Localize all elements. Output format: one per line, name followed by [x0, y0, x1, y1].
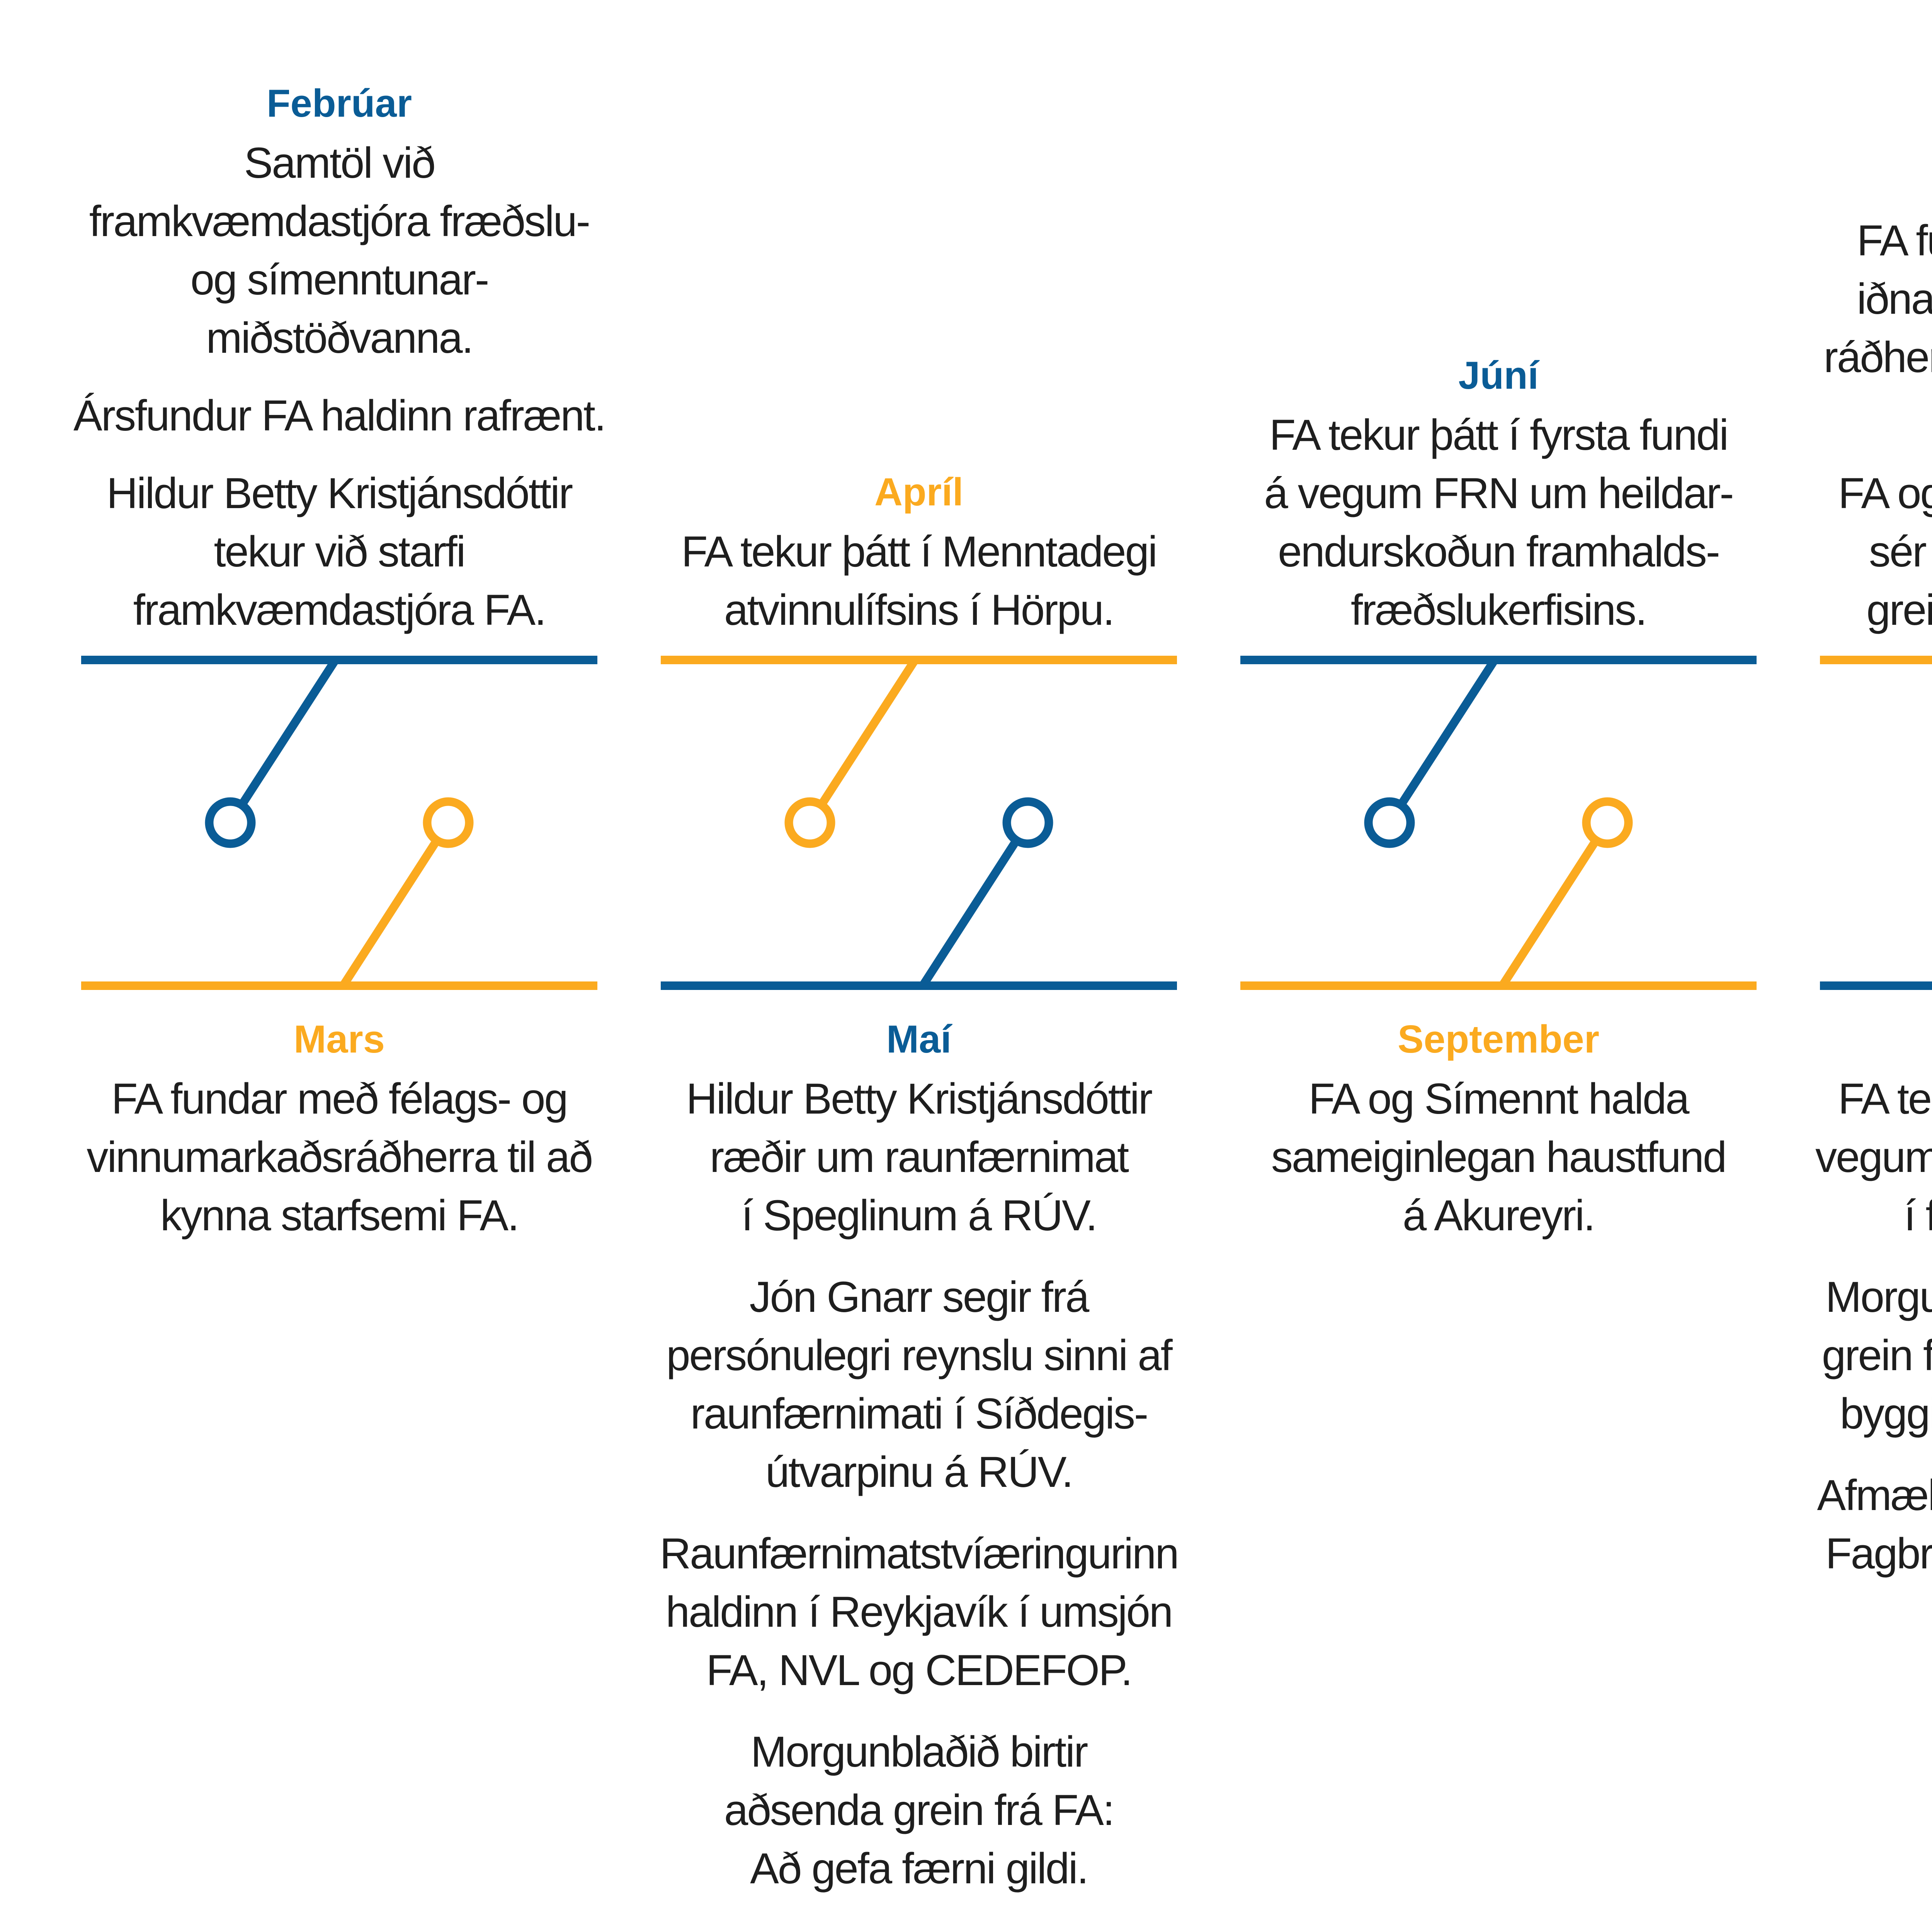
right event circle (yellow)	[427, 802, 469, 844]
bottom connector diagonal (yellow)	[1502, 823, 1607, 986]
bottom timeline line (blue, Nóvember)	[1820, 981, 1932, 990]
right event circle (yellow)	[1587, 802, 1629, 844]
Október text block	[1784, 152, 1932, 639]
top timeline line (yellow, Apríl)	[661, 656, 1177, 664]
top connector diagonal (yellow)	[810, 660, 915, 823]
right event circle (blue)	[1007, 802, 1049, 844]
bottom timeline line (yellow, September)	[1240, 981, 1757, 990]
bottom connector diagonal (blue)	[923, 823, 1028, 986]
timeline graphic column 2	[648, 638, 1189, 1024]
Júní text block	[1205, 347, 1792, 639]
September text block	[1205, 1010, 1792, 1245]
left event circle (blue)	[1369, 802, 1411, 844]
top connector diagonal (blue)	[1389, 660, 1495, 823]
timeline graphic column 1	[69, 638, 610, 1024]
timeline graphic column 4	[1808, 638, 1932, 1024]
top timeline line (blue, Febrúar)	[81, 656, 597, 664]
bottom timeline line (blue, Maí)	[661, 981, 1177, 990]
timeline graphic column 3	[1228, 638, 1769, 1024]
Febrúar text block	[46, 75, 633, 639]
top timeline line (yellow, Október)	[1820, 656, 1932, 664]
left event circle (yellow)	[789, 802, 831, 844]
top connector diagonal (blue)	[230, 660, 335, 823]
top timeline line (blue, Júní)	[1240, 656, 1757, 664]
bottom connector diagonal (yellow)	[343, 823, 448, 986]
bottom timeline line (yellow, Mars)	[81, 981, 597, 990]
Maí text block	[625, 1010, 1213, 1932]
left event circle (blue)	[209, 802, 252, 844]
Apríl text block	[625, 463, 1213, 639]
Mars text block	[46, 1010, 633, 1245]
Nóvember text block	[1784, 1010, 1932, 1583]
